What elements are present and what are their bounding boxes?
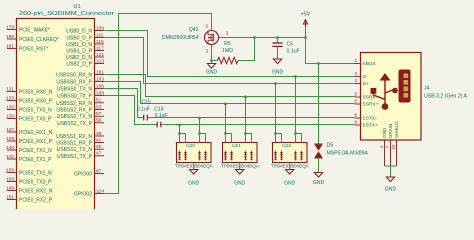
U1 pin 109 USB0_D_N xyxy=(95,30,105,32)
U1 pin 136 PCIE0_TX0_P xyxy=(7,118,17,120)
svg-text:158: 158 xyxy=(6,176,14,182)
J4 pin 6 SSRX+ xyxy=(355,103,361,105)
ground at U22 xyxy=(289,163,291,167)
J4 pin 9 SSTX+ xyxy=(355,124,361,126)
U1 pin 47 USBSS1_TX_P xyxy=(95,155,105,157)
svg-text:115: 115 xyxy=(96,39,104,45)
svg-text:137: 137 xyxy=(6,127,14,133)
wire USB0_D_N to J4 D- net xyxy=(104,31,355,77)
wire USBSS0_TX_P to C18 (SSTX+ net) xyxy=(104,96,157,125)
svg-text:TPD4E02B04DQA: TPD4E02B04DQA xyxy=(221,164,260,169)
U1 pin 131 PCIE0_RX0_N xyxy=(7,91,17,93)
ground at U20 xyxy=(193,163,195,167)
connector U1 260-pin_SODIMM_Connector body xyxy=(17,19,95,219)
svg-text:GND: GND xyxy=(188,181,200,187)
svg-text:109: 109 xyxy=(96,25,104,31)
svg-text:USBSS2_RX_N: USBSS2_RX_N xyxy=(56,101,92,107)
svg-text:R5: R5 xyxy=(224,41,231,47)
svg-text:2: 2 xyxy=(205,24,208,29)
svg-text:USB0_D_P: USB0_D_P xyxy=(66,36,92,42)
wire J4 ground pins join xyxy=(385,165,397,167)
svg-text:USBSS0_RX_P: USBSS0_RX_P xyxy=(56,80,92,86)
ground at D5 xyxy=(318,170,320,173)
svg-text:DMN2600UFB4: DMN2600UFB4 xyxy=(162,35,199,41)
svg-text:GPIO02: GPIO02 xyxy=(74,192,92,198)
svg-text:U22: U22 xyxy=(282,143,291,149)
wire VBUS to D5 xyxy=(318,64,320,145)
svg-text:45: 45 xyxy=(96,144,102,150)
svg-text:47: 47 xyxy=(96,151,102,157)
J4 pin 2 D- xyxy=(355,76,361,78)
svg-text:PCIE0_TX0_N: PCIE0_TX0_N xyxy=(19,108,52,114)
U22 internal diodes xyxy=(275,151,277,161)
svg-text:3: 3 xyxy=(205,49,208,54)
Q42 pin 3 (source) wire to GND junction xyxy=(211,45,213,61)
wire U22 pins 3,4 tap xyxy=(294,75,297,78)
U1 pin 180 PCIE0_CLKREQ* xyxy=(7,38,17,40)
svg-text:GND: GND xyxy=(385,187,397,193)
svg-text:133: 133 xyxy=(6,95,14,101)
J4 USB receptacle icon xyxy=(399,70,411,103)
J4 pin 1 VBUS xyxy=(355,63,361,65)
svg-text:87: 87 xyxy=(96,168,102,174)
ground at Q42 source xyxy=(210,59,213,62)
svg-text:111: 111 xyxy=(96,32,104,38)
svg-text:Q42: Q42 xyxy=(189,27,199,33)
svg-text:USB2_D_P: USB2_D_P xyxy=(66,62,92,68)
wire D5 to ground xyxy=(318,158,320,170)
wire U22 pins 1,2 tap xyxy=(274,82,277,85)
svg-text:PCIE0_CLKREQ*: PCIE0_CLKREQ* xyxy=(19,37,59,43)
svg-text:GND: GND xyxy=(206,70,218,76)
wire U21 pins 3,4 tap xyxy=(244,96,247,99)
wire USBSS0_TX_N to C15 (SSTX- net) xyxy=(104,89,143,118)
svg-text:SSTX-: SSTX- xyxy=(363,116,378,122)
svg-text:PCIE0_TX1_P: PCIE0_TX1_P xyxy=(19,157,52,163)
connector J4 USB 3.2 (Gen 2) A body xyxy=(361,53,422,141)
svg-text:PCIE0_TX2_P: PCIE0_TX2_P xyxy=(19,180,52,186)
svg-text:260-pin_SODIMM_Connector: 260-pin_SODIMM_Connector xyxy=(19,11,114,17)
U1 pin 117 USB1_D_P xyxy=(95,50,105,52)
U1 pin 121 USB2_D_N xyxy=(95,56,105,58)
svg-text:180: 180 xyxy=(6,34,14,40)
U1 pin 124 GPIO02 xyxy=(95,193,105,195)
svg-text:USBSS1_TX_P: USBSS1_TX_P xyxy=(57,154,93,160)
svg-text:0.1uF: 0.1uF xyxy=(155,113,168,119)
U1 pin 139 PCIE0_RX1_P xyxy=(7,140,17,142)
svg-text:136: 136 xyxy=(6,113,14,119)
svg-text:USB 3.2 (Gen 2) A: USB 3.2 (Gen 2) A xyxy=(424,94,468,100)
U1 pin 111 USB0_D_P xyxy=(95,37,105,39)
svg-text:VBUS: VBUS xyxy=(363,61,376,67)
Q42 pin 1 (gate) wire to R5 junction xyxy=(219,37,255,39)
svg-text:10: 10 xyxy=(391,144,396,149)
U1 pin 166 USBSS0_TX_N xyxy=(95,88,105,90)
U1 pin 123 USB2_D_P xyxy=(95,63,105,65)
svg-text:GND: GND xyxy=(272,70,284,76)
svg-text:D+: D+ xyxy=(363,81,369,87)
svg-text:161: 161 xyxy=(96,69,104,75)
U1 pin 168 USBSS0_TX_P xyxy=(95,95,105,97)
svg-text:SSRX+: SSRX+ xyxy=(363,102,379,108)
capacitor C18 0.1uF xyxy=(156,122,158,128)
svg-text:0.1uF: 0.1uF xyxy=(137,106,150,112)
ESD diode array U20 TPD4E02B04DQA body xyxy=(177,143,212,163)
svg-text:121: 121 xyxy=(96,52,104,58)
svg-text:U20: U20 xyxy=(186,143,195,149)
J4 pin 8 SSTX- xyxy=(355,117,361,119)
wire U20 pins 3,4 tap xyxy=(198,117,201,120)
U1 pin 137 PCIE0_RX1_N xyxy=(7,131,17,133)
svg-text:+5V: +5V xyxy=(301,12,311,18)
U1 pin 163 USBSS0_RX_P xyxy=(95,81,105,83)
svg-text:USB2_D_N: USB2_D_N xyxy=(66,55,92,61)
wire USBSS0_RX_P to J4 SSRX+ net xyxy=(104,82,355,104)
J4 pin 10 SHIELD (bottom) xyxy=(396,140,398,166)
wire +5V to J4 VBUS xyxy=(306,38,355,64)
ground at U21 xyxy=(239,163,241,167)
ground at C5 xyxy=(277,56,279,59)
svg-text:MSP5.0A-M3/89A: MSP5.0A-M3/89A xyxy=(327,151,369,157)
U1 pin 57 USBSS2_TX_N xyxy=(95,115,105,117)
svg-text:J4: J4 xyxy=(424,86,430,92)
U1 pin 41 USBSS1_RX_P xyxy=(95,142,105,144)
svg-text:PCIE0_TX0_P: PCIE0_TX0_P xyxy=(19,117,52,123)
svg-text:PCIE0_RX0_N: PCIE0_RX0_N xyxy=(19,90,53,96)
svg-text:5: 5 xyxy=(354,92,357,97)
transistor Q42 DMN2600UFB4 (N-MOSFET) xyxy=(205,31,219,45)
svg-text:C18: C18 xyxy=(154,106,163,112)
svg-text:1: 1 xyxy=(354,58,357,63)
svg-text:1: 1 xyxy=(226,31,229,36)
svg-text:117: 117 xyxy=(96,45,104,51)
svg-text:59: 59 xyxy=(96,118,102,124)
wire gate node to +5V/VBUS drop xyxy=(255,37,306,39)
U1 pin 133 PCIE0_RX0_P xyxy=(7,100,17,102)
svg-text:USB0_D_N: USB0_D_N xyxy=(66,29,92,35)
svg-text:USB1_D_P: USB1_D_P xyxy=(66,49,92,55)
svg-text:SHIELD: SHIELD xyxy=(394,121,399,138)
svg-text:USBSS0_TX_N: USBSS0_TX_N xyxy=(57,87,93,93)
U1 pin 140 PCIE0_TX1_N xyxy=(7,149,17,151)
wire GPIO02 to Q42 drain xyxy=(104,14,212,194)
svg-text:PCIE_WAKE*: PCIE_WAKE* xyxy=(19,28,50,34)
svg-text:USBSS2_TX_P: USBSS2_TX_P xyxy=(57,121,93,127)
svg-text:PCIE0_RX2_P: PCIE0_RX2_P xyxy=(19,198,53,204)
svg-text:39: 39 xyxy=(96,131,102,137)
junction gate/R5 xyxy=(253,36,256,39)
svg-text:C15: C15 xyxy=(142,99,151,105)
U1 pin 59 USBSS2_TX_P xyxy=(95,122,105,124)
U1 pin 115 USB1_D_N xyxy=(95,43,105,45)
svg-text:D5: D5 xyxy=(327,143,334,149)
U1 pin 87 GPIO00 xyxy=(95,173,105,175)
svg-text:USB1_D_N: USB1_D_N xyxy=(66,42,92,48)
junction C5 tap xyxy=(276,36,279,39)
svg-text:163: 163 xyxy=(96,76,104,82)
svg-text:131: 131 xyxy=(6,86,14,92)
svg-text:USBSS1_RX_P: USBSS1_RX_P xyxy=(56,141,92,147)
svg-text:U1: U1 xyxy=(73,4,80,10)
svg-text:3: 3 xyxy=(354,78,357,83)
svg-text:0.1uF: 0.1uF xyxy=(287,49,300,55)
U1 pin 158 PCIE0_TX2_P xyxy=(7,181,17,183)
svg-text:51: 51 xyxy=(96,98,102,104)
U21 internal diodes xyxy=(225,151,227,161)
svg-text:6: 6 xyxy=(354,99,357,104)
svg-text:PCIE0_RX1_N: PCIE0_RX1_N xyxy=(19,130,53,136)
svg-text:41: 41 xyxy=(96,137,102,143)
svg-text:139: 139 xyxy=(6,136,14,142)
svg-text:TPD4E02B04DQA: TPD4E02B04DQA xyxy=(175,164,214,169)
svg-text:PCIE0_RX2_N: PCIE0_RX2_N xyxy=(19,189,53,195)
svg-text:156: 156 xyxy=(6,167,14,173)
U1 pin 149 PCIE0_RX2_N xyxy=(7,190,17,192)
wire R5 to gate junction xyxy=(238,38,255,61)
svg-text:U21: U21 xyxy=(232,143,241,149)
svg-text:PCIE0_RX1_P: PCIE0_RX1_P xyxy=(19,139,53,145)
svg-text:PCIE0_RX0_P: PCIE0_RX0_P xyxy=(19,99,53,105)
svg-text:PCIE0_RST*: PCIE0_RST* xyxy=(19,47,48,53)
J4 USB trident icon xyxy=(374,79,396,104)
svg-text:57: 57 xyxy=(96,111,102,117)
J4 pin 3 D+ xyxy=(355,83,361,85)
svg-text:9: 9 xyxy=(354,120,357,125)
U1 pin 135 PCIE0_TX0_N xyxy=(7,109,17,111)
svg-text:53: 53 xyxy=(96,104,102,110)
svg-text:2: 2 xyxy=(354,71,357,76)
svg-text:C5: C5 xyxy=(287,42,294,48)
svg-text:GND: GND xyxy=(313,180,325,186)
ground at J4 shell xyxy=(390,174,392,177)
U1 pin 51 USBSS2_RX_N xyxy=(95,102,105,104)
wire USB0_D_P to J4 D+ net xyxy=(104,38,355,84)
ESD diode array U21 TPD4E02B04DQA body xyxy=(223,143,258,163)
svg-text:USBSS0_TX_P: USBSS0_TX_P xyxy=(57,94,93,100)
capacitor C15 0.1uF xyxy=(143,115,145,121)
U1 pin 179 PCIE_WAKE* xyxy=(7,29,17,31)
svg-text:168: 168 xyxy=(96,90,104,96)
wire U21 pins 1,2 tap xyxy=(224,103,227,106)
svg-text:USBSS2_RX_P: USBSS2_RX_P xyxy=(56,108,92,114)
Q42 pin 2 (drain) stub xyxy=(211,30,213,32)
power +5V symbol xyxy=(304,36,307,39)
J4 pin 5 SSRX- xyxy=(355,96,361,98)
svg-text:151: 151 xyxy=(6,194,14,200)
wire USBSS0_RX_N to J4 SSRX- net xyxy=(104,75,355,97)
svg-text:1MΩ: 1MΩ xyxy=(222,48,233,54)
svg-text:123: 123 xyxy=(96,58,104,64)
U1 pin 156 PCIE0_TX2_N xyxy=(7,172,17,174)
svg-text:GND: GND xyxy=(382,127,387,138)
svg-text:TPD4E02B04DQA: TPD4E02B04DQA xyxy=(271,164,310,169)
svg-text:SSTX+: SSTX+ xyxy=(363,123,379,129)
svg-text:124: 124 xyxy=(96,188,104,194)
capacitor C5 0.1uF xyxy=(277,38,279,44)
svg-text:PCIE0_TX2_N: PCIE0_TX2_N xyxy=(19,171,52,177)
U20 internal diodes xyxy=(179,151,181,161)
svg-text:142: 142 xyxy=(6,154,14,160)
svg-text:USBSS0_RX_N: USBSS0_RX_N xyxy=(56,73,92,79)
wire U20 pins 1,2 tap xyxy=(178,124,181,127)
svg-text:GPIO00: GPIO00 xyxy=(74,172,92,178)
ESD diode array U22 TPD4E02B04DQA body xyxy=(273,143,308,163)
wire C15 to J4 SSTX- xyxy=(148,117,355,119)
svg-text:DRAIN: DRAIN xyxy=(388,124,393,138)
U1 pin 181 PCIE0_RST* xyxy=(7,48,17,50)
svg-text:USBSS2_TX_N: USBSS2_TX_N xyxy=(57,114,93,120)
svg-text:USBSS1_TX_N: USBSS1_TX_N xyxy=(57,147,93,153)
svg-text:USBSS1_RX_N: USBSS1_RX_N xyxy=(56,134,92,140)
svg-text:179: 179 xyxy=(6,24,14,30)
svg-text:PCIE0_TX1_N: PCIE0_TX1_N xyxy=(19,148,52,154)
svg-text:D-: D- xyxy=(363,74,368,80)
U1 pin 151 PCIE0_RX2_P xyxy=(7,199,17,201)
svg-text:GND: GND xyxy=(234,181,246,187)
U1 pin 142 PCIE0_TX1_P xyxy=(7,158,17,160)
wire C18 to J4 SSTX+ xyxy=(161,124,354,126)
diode D5 MSP5.0A-M3/89A (TVS) xyxy=(315,145,323,151)
svg-text:166: 166 xyxy=(96,83,104,89)
J4 pin 7 DRAIN (bottom) xyxy=(390,140,392,166)
U1 pin 161 USBSS0_RX_N xyxy=(95,74,105,76)
U1 pin 39 USBSS1_RX_N xyxy=(95,135,105,137)
svg-text:181: 181 xyxy=(6,43,14,49)
svg-text:135: 135 xyxy=(6,104,14,110)
U1 pin 45 USBSS1_TX_N xyxy=(95,148,105,150)
svg-text:8: 8 xyxy=(354,113,357,118)
junction D5 tap on VBUS xyxy=(317,62,320,65)
svg-text:140: 140 xyxy=(6,145,14,151)
resistor R5 1M ohm xyxy=(212,60,218,62)
J4 pin 4 GND (bottom) xyxy=(384,140,386,166)
svg-text:149: 149 xyxy=(6,185,14,191)
svg-text:GND: GND xyxy=(284,181,296,187)
U1 pin 53 USBSS2_RX_P xyxy=(95,109,105,111)
